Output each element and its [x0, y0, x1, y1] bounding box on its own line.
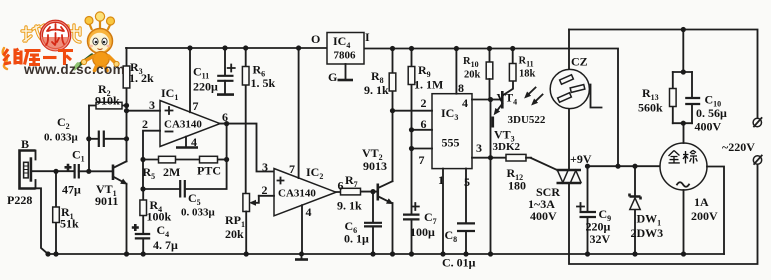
- wire: mic ground lead: [36, 188, 49, 254]
- wire: IC2 pin4 to ground rail: [302, 205, 312, 254]
- watermark: red ball with 芯: [41, 21, 69, 51]
- svg-text:7: 7: [193, 99, 199, 113]
- watermark: mascot: [75, 12, 120, 71]
- timer IC3 555: [432, 94, 472, 169]
- svg-text:1. 1M: 1. 1M: [414, 78, 443, 92]
- resistor R1 51k: [53, 171, 79, 254]
- node: R13/C10 dropper top: [673, 30, 692, 73]
- capacitor C1 47u: [62, 148, 89, 197]
- op-amp IC1 CA3140: [160, 86, 220, 147]
- transistor VT3 3DK2: [493, 117, 521, 154]
- wire: IC2 pin7 to rail: [289, 48, 299, 178]
- svg-text:8: 8: [458, 81, 464, 95]
- svg-text:7806: 7806: [334, 50, 357, 62]
- svg-text:100μ: 100μ: [410, 225, 435, 239]
- svg-text:51k: 51k: [60, 217, 79, 231]
- svg-text:C. 01μ: C. 01μ: [442, 256, 476, 270]
- svg-text:1. 5k: 1. 5k: [251, 76, 276, 90]
- wire: +9V top rail (right of 7806): [364, 49, 618, 167]
- resistor R2 910k: [89, 82, 127, 109]
- svg-text:www.dzsc.com: www.dzsc.com: [23, 62, 125, 77]
- svg-text:9011: 9011: [95, 194, 118, 208]
- svg-text:9. 1k: 9. 1k: [364, 83, 389, 97]
- resistor R11 18k: [509, 49, 535, 82]
- svg-text:5: 5: [464, 175, 470, 189]
- wire: IC1 pin3 lead: [127, 98, 161, 112]
- resistor R7 9.1k: [336, 173, 377, 213]
- watermark: www.dzsc.com: [23, 62, 125, 77]
- ground: IC4 G pin: [338, 64, 354, 80]
- svg-text:0. 1μ: 0. 1μ: [344, 232, 369, 246]
- svg-text:100k: 100k: [147, 210, 172, 224]
- svg-text:220μ: 220μ: [193, 80, 218, 94]
- watermark: outlined text 找芯片: [22, 25, 80, 42]
- potentiometer RP1 20k: [225, 194, 259, 255]
- svg-text:9. 1k: 9. 1k: [337, 199, 362, 213]
- wire: IC3 pin7 lead: [412, 149, 433, 168]
- svg-text:CA3140: CA3140: [278, 188, 316, 200]
- svg-text:3: 3: [149, 98, 155, 112]
- resistor R6 1.5k: [242, 48, 275, 194]
- resistor R12 180: [506, 154, 531, 192]
- svg-text:G: G: [328, 70, 337, 84]
- svg-text:400V: 400V: [695, 120, 722, 134]
- capacitor C11 220u: [193, 48, 235, 95]
- wire: IC3 pin6 lead: [412, 117, 433, 131]
- wire: IC2 pin2 lead from RP1 wiper: [259, 183, 274, 197]
- bridge rectifier (full bridge): [660, 123, 724, 254]
- svg-text:B: B: [21, 137, 29, 151]
- capacitor C5 0.033u (feedback): [143, 124, 227, 219]
- svg-text:2M: 2M: [163, 165, 180, 179]
- wire: VT1 base node vertical: [89, 106, 112, 172]
- svg-text:P228: P228: [7, 193, 32, 207]
- thyristor SCR 1~3A 400V: [528, 109, 581, 223]
- svg-text:CA3140: CA3140: [164, 119, 202, 131]
- svg-text:2: 2: [262, 183, 268, 197]
- svg-text:2: 2: [421, 96, 427, 110]
- capacitor C10 0.56u 400V: [685, 72, 727, 134]
- terminal: AC 220V upper: [753, 118, 761, 127]
- svg-text:0. 56μ: 0. 56μ: [696, 106, 727, 120]
- svg-text:47μ: 47μ: [62, 183, 81, 197]
- capacitor C8 0.01u on pin5: [442, 169, 476, 270]
- svg-text:~220V: ~220V: [722, 140, 755, 154]
- svg-text:4: 4: [462, 96, 468, 110]
- svg-text:555: 555: [442, 136, 460, 150]
- svg-text:4: 4: [306, 205, 312, 219]
- wire: VT4/VT3 vertical to ground: [490, 100, 492, 255]
- terminal: AC 220V lower: [753, 156, 761, 165]
- svg-text:20k: 20k: [225, 227, 244, 241]
- svg-text:3DK2: 3DK2: [493, 141, 521, 153]
- light arrows into VT4: [527, 88, 543, 103]
- label: 全桥 (drawn strokes): [669, 150, 698, 163]
- svg-text:3DU522: 3DU522: [508, 114, 546, 126]
- ground: marker under rail at IC2 pin4: [295, 254, 308, 260]
- ground: IC1 pin4: [176, 135, 198, 149]
- capacitor C2 0.033u: [44, 115, 127, 147]
- resistor R9 1.1M: [408, 49, 443, 214]
- svg-text:O: O: [311, 32, 320, 46]
- label: ~220V: [722, 140, 755, 154]
- svg-text:7: 7: [419, 153, 425, 167]
- svg-text:0. 033μ: 0. 033μ: [181, 207, 216, 219]
- svg-text:1. 2k: 1. 2k: [129, 71, 154, 85]
- op-amp IC2 CA3140: [274, 165, 336, 216]
- svg-text:910k: 910k: [95, 94, 120, 108]
- svg-text:4: 4: [191, 135, 197, 149]
- wire: IC1 pin2 lead: [142, 117, 160, 189]
- transistor VT1 9011: [95, 161, 127, 254]
- wire: ground bottom rail: [48, 253, 724, 255]
- regulator IC4 7806: [311, 30, 370, 84]
- svg-text:560k: 560k: [638, 101, 663, 115]
- resistor PTC (feedback): [197, 156, 227, 177]
- wire: gate lead to SCR: [531, 158, 558, 170]
- wire: neutral return line: [569, 164, 758, 264]
- node: +9V supply line: [570, 152, 660, 166]
- wire: IC3 pin2 lead: [393, 96, 433, 111]
- svg-text:6: 6: [421, 117, 427, 131]
- wire: IC1 pin7 to rail: [190, 48, 199, 113]
- svg-text:I: I: [365, 30, 370, 44]
- svg-text:6: 6: [338, 179, 344, 193]
- socket CZ: [550, 30, 601, 109]
- capacitor C7 100u: [403, 203, 437, 254]
- svg-text:1A: 1A: [694, 195, 709, 209]
- capacitor C6 0.1u: [344, 192, 382, 254]
- resistor R3 1.2k (collector load): [123, 48, 154, 161]
- svg-text:2DW3: 2DW3: [631, 226, 664, 240]
- zener diode DW1 2DW3: [630, 166, 664, 254]
- svg-text:1: 1: [438, 173, 444, 187]
- resistor R4 100k: [140, 189, 172, 234]
- wire: IC3 pin3 lead: [472, 141, 506, 158]
- svg-text:32V: 32V: [590, 232, 611, 246]
- svg-text:CZ: CZ: [571, 55, 588, 69]
- wire: mic output lead: [31, 170, 74, 172]
- resistor R13 560k: [638, 72, 676, 123]
- resistor R5 2M (feedback): [143, 156, 200, 181]
- svg-text:0. 033μ: 0. 033μ: [44, 132, 79, 144]
- svg-text:4. 7μ: 4. 7μ: [153, 238, 178, 252]
- svg-text:3: 3: [476, 141, 482, 155]
- capacitor C9 220u 32V: [577, 166, 611, 254]
- transistor VT2 9013: [362, 91, 393, 254]
- wire: 220V live top rail: [569, 30, 758, 119]
- svg-text:7: 7: [289, 162, 295, 176]
- svg-text:20k: 20k: [464, 70, 481, 81]
- wire: IC3 pin1 to ground: [438, 169, 444, 254]
- resistor R10 20k: [463, 49, 493, 100]
- wire: IC3 pin8 to rail: [456, 49, 464, 96]
- watermark: orange swirl decoration: [3, 48, 7, 69]
- svg-text:PTC: PTC: [197, 164, 221, 178]
- svg-text:9013: 9013: [363, 159, 387, 173]
- wire: IC3 pin4 lead: [472, 99, 491, 101]
- microphone B P228: [7, 137, 36, 207]
- svg-text:3: 3: [262, 160, 268, 174]
- svg-text:200V: 200V: [691, 209, 718, 223]
- svg-text:18k: 18k: [519, 69, 536, 80]
- node: dropper bottom bar: [673, 122, 692, 124]
- wire: +6V top rail (left): [126, 47, 327, 49]
- wire: IC1 pin6 output to IC2 pin3: [220, 110, 274, 174]
- svg-text:400V: 400V: [530, 209, 557, 223]
- svg-text:180: 180: [508, 179, 526, 193]
- phototransistor VT4 3DU522: [491, 81, 546, 126]
- watermark: red text 维库一下: [4, 49, 74, 66]
- resistor R8 9.1k: [364, 49, 396, 98]
- svg-text:2: 2: [142, 117, 148, 131]
- capacitor C4 4.7u: [132, 223, 178, 254]
